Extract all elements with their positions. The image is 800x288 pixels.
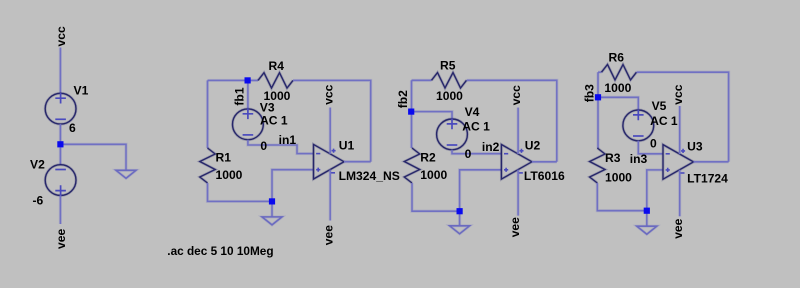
ground (left column) [116,170,136,178]
svg-text:1000: 1000 [216,168,243,182]
resistor R5 [432,73,467,88]
wire R1 bottom elbow [208,183,273,201]
svg-text:AC 1: AC 1 [260,114,288,128]
resistor R3 [590,148,605,183]
svg-text:V3: V3 [260,100,275,114]
svg-text:1000: 1000 [604,81,631,95]
voltage source V1 [45,93,76,124]
svg-text:U2: U2 [525,139,541,153]
junction fb2 [408,109,414,115]
svg-text:in3: in3 [630,152,648,166]
junction U3 noninverting node [644,208,650,214]
wire fb1 left rail [206,80,209,148]
svg-text:6: 6 [69,121,76,135]
junction U1 noninverting node [269,198,275,204]
ground (circuit 3) [637,226,657,234]
svg-text:V2: V2 [30,158,45,172]
junction U2 noninverting node [457,208,463,214]
wire U3 output [694,160,729,163]
svg-text:1000: 1000 [420,168,447,182]
wire fb3 left rail [596,72,599,148]
svg-text:fb3: fb3 [583,84,597,102]
svg-text:0: 0 [260,139,267,153]
op-amp U2 [501,145,532,180]
wire top rail to R5 left [412,79,432,82]
voltage source V3 [233,109,264,140]
wire junction fb1 to R4 left [248,79,258,82]
wire junction to ground 2 [458,211,461,226]
svg-text:vcc: vcc [509,85,523,105]
wire junction fb3 to V5 top [598,97,638,110]
svg-text:fb2: fb2 [396,90,410,108]
resistor R6 [602,65,637,80]
wire node 6 to ground elbow [60,144,126,170]
wire junction to ground 1 [270,201,273,217]
svg-text:1000: 1000 [605,170,632,184]
svg-text:vee: vee [508,217,522,237]
svg-text:0: 0 [650,137,657,151]
wire R3 bottom elbow [597,183,647,211]
wire top rail to junction fb1 [208,79,248,82]
svg-text:V1: V1 [74,84,89,98]
wire vcc to U1 V+ pin [329,108,332,154]
junction fb3 [595,94,601,100]
wire V5 bottom to U3 inverting input [638,141,663,154]
wire R4 right to U1 output (feedback) [293,80,371,161]
svg-text:in2: in2 [482,140,500,154]
svg-text:R6: R6 [609,50,625,64]
wire junction to U1 noninverting input [272,170,314,202]
wire R6 right to U3 output (feedback) [637,72,729,162]
op-amp U1 [314,144,345,179]
wire U2 V- pin to vee [517,170,520,216]
ground (circuit 1) [262,217,282,225]
svg-text:1000: 1000 [436,89,463,103]
svg-text:LT1724: LT1724 [687,171,728,185]
wire junction to ground 3 [645,211,648,227]
junction fb1 [245,77,251,83]
svg-text:vcc: vcc [321,84,335,104]
svg-text:0: 0 [465,147,472,161]
svg-text:R2: R2 [420,150,436,164]
svg-text:in1: in1 [279,133,297,147]
svg-text:vee: vee [322,225,336,245]
svg-text:.ac dec 5 10 10Meg: .ac dec 5 10 10Meg [167,244,273,258]
svg-text:U1: U1 [339,138,355,152]
svg-text:vee: vee [54,229,68,249]
wire top rail to R6 left [598,71,602,74]
wire node 6 to V2 top [59,148,62,165]
voltage source V2 [45,165,76,196]
svg-text:fb1: fb1 [232,87,246,105]
wire R5 right to U2 output (feedback) [467,80,557,162]
svg-text:R1: R1 [216,150,232,164]
resistor R4 [258,73,293,88]
svg-text:V4: V4 [465,105,480,119]
wire V3 bottom to U1 inverting input [248,140,314,154]
svg-text:-6: -6 [33,194,44,208]
svg-text:U3: U3 [687,139,703,153]
wire V2 bottom to vee [59,196,62,225]
ground (circuit 2) [450,226,470,234]
resistor R2 [404,148,419,183]
svg-text:AC 1: AC 1 [650,114,678,128]
wire fb1 to V3 top [246,80,249,109]
wire R2 bottom elbow [412,183,460,211]
voltage source V5 [623,110,654,141]
voltage source V4 [437,119,468,150]
svg-text:R4: R4 [269,59,285,73]
wire vcc to U2 V+ pin [517,108,520,154]
svg-text:R5: R5 [440,59,456,73]
wire junction to U2 noninverting input [460,170,502,211]
svg-text:LT6016: LT6016 [524,169,565,183]
wire U1 output [344,160,371,163]
junction node 6 [57,141,63,147]
svg-text:vcc: vcc [54,26,68,46]
wire V4 bottom to U2 inverting input [452,150,501,154]
svg-text:LM324_NS: LM324_NS [339,169,400,183]
svg-text:vee: vee [671,218,685,238]
svg-text:AC 1: AC 1 [462,119,490,133]
op-amp U3 [663,145,694,180]
svg-text:vcc: vcc [671,84,685,104]
resistor R1 [200,148,215,183]
svg-text:V5: V5 [652,99,667,113]
wire vcc to U3 V+ pin [678,106,681,154]
wire U1 V- pin to vee [329,170,332,221]
wire U3 V- pin to vee [678,170,681,217]
wire V1 bottom to node 6 [59,124,62,141]
wire fb2 left rail [410,80,413,148]
wire vcc to V1 top [59,48,62,94]
wire junction fb2 to V4 top [411,112,452,119]
wire U2 output [532,160,557,163]
svg-text:R3: R3 [605,151,621,165]
wire junction to U3 noninverting input [647,170,663,211]
